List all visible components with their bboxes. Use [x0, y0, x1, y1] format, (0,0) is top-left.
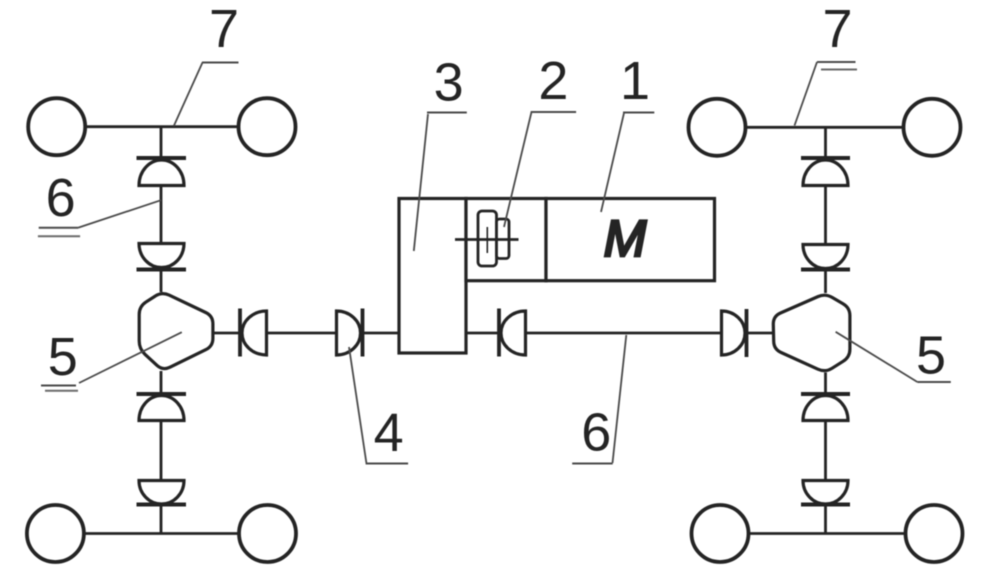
wheel front-right inner	[689, 99, 746, 156]
u-joint dome front-right upper	[803, 160, 848, 186]
underline 6 left	[39, 227, 79, 229]
clutch plate small	[497, 219, 510, 259]
wheel rear-right outer	[906, 505, 963, 562]
u-joint dome rear-left upper	[139, 396, 184, 421]
underline 3	[427, 112, 467, 114]
leader line 5 right	[836, 332, 918, 382]
u-joint bowl rear-right lower	[803, 481, 848, 505]
differential 5 left	[139, 294, 213, 369]
underline 5 right	[917, 381, 950, 383]
wire propshaft between left joints	[267, 332, 337, 335]
svg-text:6: 6	[581, 403, 611, 463]
underline 5 left	[41, 385, 76, 387]
clutch plate large	[478, 211, 497, 266]
leader line 6 bottom	[613, 335, 627, 463]
u-joint bar front-left upper	[137, 156, 187, 160]
underline 7 right	[817, 61, 856, 63]
wire output shaft gearbox to joint	[466, 332, 499, 335]
underline 6 bottom	[572, 463, 613, 465]
joint bar center-right outer	[497, 309, 501, 357]
wheel front-left inner	[239, 98, 296, 155]
clutch shaft 2	[455, 238, 519, 241]
leader line 1	[601, 113, 624, 212]
leader line 2	[504, 112, 532, 227]
svg-text:7: 7	[209, 0, 239, 59]
wire propshaft joint4 to gearbox	[364, 332, 399, 335]
wire long propshaft 6	[526, 332, 722, 335]
joint dome right-end	[722, 311, 746, 355]
leader line 4	[349, 347, 366, 463]
svg-text:2: 2	[538, 51, 568, 111]
wire propshaft left diff to joint	[212, 332, 240, 335]
clutch inner slot	[486, 227, 488, 253]
svg-text:6: 6	[46, 168, 76, 228]
wheel rear-left inner	[239, 505, 296, 562]
u-joint dome front-left upper	[139, 160, 184, 186]
shaft rear-right vertical	[824, 373, 827, 534]
underline 7 left	[202, 62, 239, 64]
u-joint bar rear-left lower	[137, 503, 187, 507]
axle front-right	[746, 126, 904, 129]
underline2 7 right	[821, 69, 857, 71]
u-joint bar front-right lower	[801, 268, 850, 272]
wheel front-left outer	[28, 98, 85, 155]
joint bar left-pair outer	[238, 309, 242, 357]
wire propshaft joint to right diff	[748, 332, 774, 335]
leader line 6 left	[78, 200, 161, 227]
svg-text:1: 1	[620, 51, 650, 111]
leader line 7 right	[795, 62, 818, 126]
leader line 5 left	[79, 332, 182, 383]
u-joint bowl front-right lower	[803, 245, 848, 269]
underline2 5 left	[45, 390, 78, 392]
u-joint bar front-left lower	[137, 268, 187, 272]
svg-text:5: 5	[48, 327, 78, 387]
underline 4	[366, 463, 409, 465]
u-joint bar front-right upper	[801, 156, 850, 160]
wheel rear-right inner	[692, 505, 749, 562]
underline 1	[623, 112, 654, 114]
leader line 3	[414, 114, 428, 251]
joint bell left-pair outer	[242, 311, 267, 355]
underline 2	[531, 111, 576, 113]
axle rear-left	[84, 532, 239, 535]
svg-text:M: M	[604, 210, 647, 267]
shaft rear-left vertical	[160, 371, 163, 534]
u-joint bar rear-right lower	[801, 503, 850, 507]
svg-text:5: 5	[916, 326, 946, 386]
axle front-left	[84, 125, 239, 128]
clutch housing box	[466, 199, 546, 281]
leader line 7 left	[174, 63, 203, 127]
svg-text:4: 4	[374, 403, 404, 463]
u-joint bowl rear-left lower	[139, 481, 184, 505]
axle rear-right	[749, 532, 906, 535]
wheel rear-left outer	[27, 505, 84, 562]
wheel front-right outer	[904, 99, 961, 156]
shaft front-left vertical	[160, 127, 163, 292]
joint bell center-right	[501, 311, 526, 355]
svg-text:3: 3	[434, 53, 464, 113]
joint dome 4	[337, 311, 361, 355]
gearbox 3	[399, 199, 466, 354]
motor box 1	[546, 199, 715, 281]
u-joint dome rear-right upper	[803, 396, 848, 421]
svg-text:7: 7	[822, 0, 852, 59]
underline2 6 left	[38, 235, 80, 237]
joint bar 4	[361, 309, 365, 357]
u-joint bar rear-left upper	[137, 392, 187, 396]
shaft front-right vertical	[824, 127, 827, 293]
joint bar right-end	[745, 309, 749, 357]
differential 5 right	[773, 295, 850, 370]
u-joint bar rear-right upper	[801, 392, 850, 396]
u-joint bowl front-left lower	[139, 244, 184, 268]
